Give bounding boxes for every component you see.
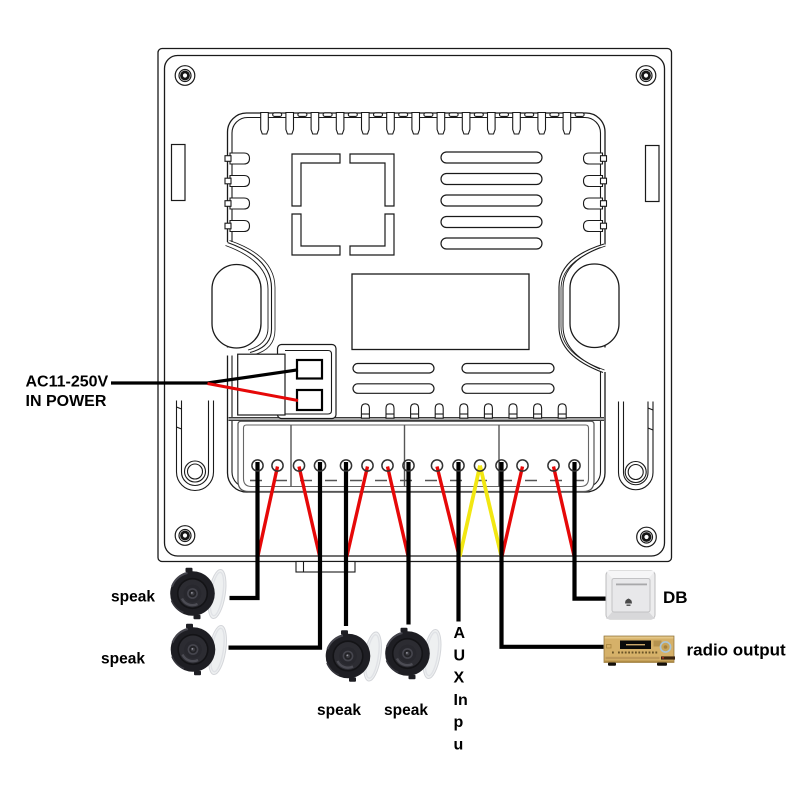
left side slot xyxy=(172,145,186,201)
svg-text:IN POWER: IN POWER xyxy=(26,393,107,410)
inner moulded panel xyxy=(228,113,606,492)
wire black doorbell DB (terminal 15) xyxy=(575,462,606,599)
right hook slot xyxy=(619,402,654,490)
terminal 13 xyxy=(517,460,528,471)
terminal 5 xyxy=(340,460,351,471)
left hook slot xyxy=(177,401,214,491)
svg-text:p: p xyxy=(454,714,464,731)
svg-text:In: In xyxy=(454,692,468,709)
svg-text:U: U xyxy=(454,647,466,664)
wire yellow AUX left (terminal 11) xyxy=(460,466,480,557)
terminal block dashed line xyxy=(250,480,584,482)
svg-text:AC11-250V: AC11-250V xyxy=(26,374,109,391)
screw BL xyxy=(175,526,195,546)
left edge clips (4) xyxy=(225,153,250,232)
wire black speaker1 (terminal 1) xyxy=(230,462,258,598)
terminal 4 xyxy=(314,460,325,471)
wire black speaker2 (terminal 4) xyxy=(229,462,321,648)
speaker 2 xyxy=(171,624,230,676)
terminal 7 xyxy=(382,460,393,471)
wire red speaker2 (terminal 3) xyxy=(299,467,320,557)
speaker 1 xyxy=(170,568,229,620)
AC label leader lines xyxy=(111,370,298,383)
svg-text:radio output: radio output xyxy=(687,641,786,660)
terminal 10 xyxy=(453,460,464,471)
right edge clips (4) xyxy=(584,153,607,232)
svg-text:A: A xyxy=(454,625,466,642)
screw TR xyxy=(636,66,656,86)
corner bracket square (4 brackets) xyxy=(292,154,394,255)
terminal 15 xyxy=(569,460,580,471)
label AUX input xyxy=(454,625,468,754)
terminal 2 xyxy=(272,460,283,471)
terminal 14 xyxy=(548,460,559,471)
svg-text:DB: DB xyxy=(663,588,688,607)
wire black AUX input (terminal 10) xyxy=(456,462,460,622)
speaker 3 xyxy=(326,630,385,682)
big centre rectangle xyxy=(352,274,529,350)
terminal 12 xyxy=(496,460,507,471)
svg-text:speak: speak xyxy=(384,702,428,719)
lower vent slots (4) xyxy=(353,364,554,394)
terminal block xyxy=(238,421,594,491)
wire black speaker4 (terminal 8) xyxy=(406,462,410,625)
outer frame rectangle xyxy=(158,49,672,562)
wire red speaker3 (terminal 6) xyxy=(347,467,368,557)
doorbell switch DB xyxy=(606,571,655,619)
top edge snap pins (13) xyxy=(261,113,584,135)
terminal 1 xyxy=(252,460,263,471)
right oval cutout xyxy=(570,264,619,348)
svg-text:speak: speak xyxy=(317,702,361,719)
wire red doorbell (terminal 14) xyxy=(554,467,575,557)
terminal 11 xyxy=(474,460,485,471)
svg-text:speak: speak xyxy=(111,589,155,606)
inner frame rounded rectangle xyxy=(165,56,665,557)
wire black speaker3 (terminal 5) xyxy=(344,462,348,626)
screw BR xyxy=(637,527,657,547)
right vent slots (5) xyxy=(441,152,542,249)
wire red aux (terminal 9) xyxy=(437,467,459,557)
terminal 6 xyxy=(362,460,373,471)
edge detour around left oval xyxy=(228,243,272,353)
left oval cutout xyxy=(212,265,261,349)
screw TL xyxy=(175,66,195,86)
wire red radio (terminal 13) xyxy=(502,467,523,557)
connector port lower xyxy=(297,390,322,410)
terminal screws (15) xyxy=(252,460,580,471)
wire black radio output (terminal 12) xyxy=(502,462,604,647)
speaker 4 xyxy=(385,628,444,680)
terminal 8 xyxy=(403,460,414,471)
terminal 3 xyxy=(293,460,304,471)
right side slot xyxy=(646,146,660,202)
radio amplifier unit xyxy=(604,636,675,666)
connector port upper xyxy=(297,360,322,379)
wire yellow AUX right (terminal 11) xyxy=(480,466,501,557)
svg-text:speak: speak xyxy=(101,651,145,668)
wire red speaker1 (terminal 2) xyxy=(258,467,278,557)
edge gaps at oval detours xyxy=(224,242,608,372)
bottom snap pins above block (9) xyxy=(361,404,566,418)
wire red speaker4 (terminal 7) xyxy=(388,467,409,557)
bottom mounting tab xyxy=(296,562,355,573)
svg-text:u: u xyxy=(454,737,464,754)
terminal 9 xyxy=(431,460,442,471)
terminal block dividers xyxy=(291,425,499,487)
edge detour around right oval xyxy=(559,244,604,373)
AC power connector xyxy=(238,345,336,419)
panel bottom band / block top edge xyxy=(229,418,605,420)
svg-text:X: X xyxy=(454,670,465,687)
